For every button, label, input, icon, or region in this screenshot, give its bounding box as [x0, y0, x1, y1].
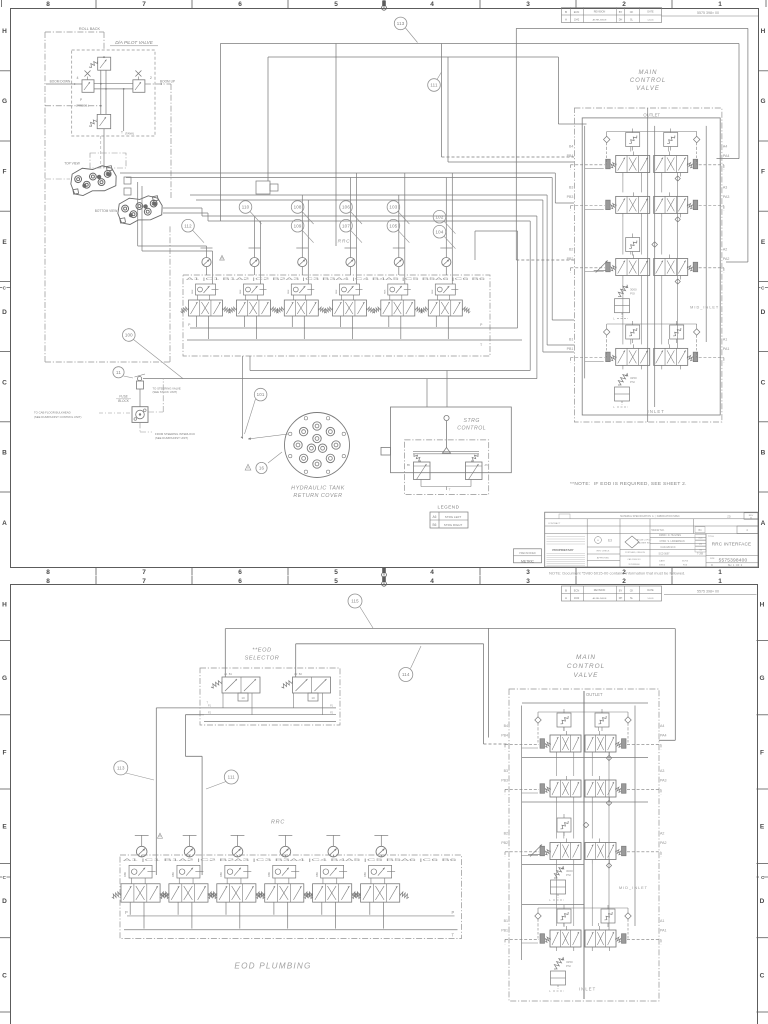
svg-text:B: B	[761, 450, 766, 457]
svg-text:5/8/00: 5/8/00	[659, 565, 666, 567]
svg-text:ATLAS COPCO: ATLAS COPCO	[637, 539, 652, 542]
svg-text:A5: A5	[485, 463, 489, 467]
svg-text:ECN: ECN	[574, 10, 580, 14]
svg-text:110: 110	[242, 205, 250, 210]
svg-text:E: E	[2, 824, 7, 831]
svg-text:+: +	[597, 538, 599, 542]
svg-text:REV CHECK: REV CHECK	[597, 551, 610, 553]
svg-text:10: 10	[311, 696, 315, 700]
svg-text:5: 5	[334, 578, 338, 585]
svg-text:A3: A3	[723, 185, 727, 189]
svg-text:BLOCK: BLOCK	[118, 399, 130, 403]
svg-text:113: 113	[117, 766, 125, 771]
svg-text:PB3: PB3	[501, 779, 508, 783]
svg-text:A1 |C1 B1A2 |C2 B2A3 |C3 B3A4: A1 |C1 B1A2 |C2 B2A3 |C3 B3A4 |C4 B4A5 |…	[123, 857, 457, 862]
svg-text:DH: DH	[619, 597, 623, 600]
svg-text:B: B	[565, 589, 567, 593]
svg-text:6: 6	[238, 1, 242, 8]
svg-text:METRIC: METRIC	[521, 559, 535, 563]
svg-text:RRC INTERFACE: RRC INTERFACE	[712, 542, 752, 547]
svg-text:SL: SL	[630, 19, 634, 22]
svg-text:AS RE-ISSUE: AS RE-ISSUE	[593, 18, 607, 21]
svg-text:CONTROL: CONTROL	[457, 426, 486, 432]
svg-text:B1: B1	[569, 337, 573, 341]
svg-text:F: F	[760, 749, 764, 756]
svg-text:M I D _ I N L E T: M I D _ I N L E T	[619, 886, 648, 890]
svg-text:102: 102	[436, 214, 444, 219]
svg-text:STRG RIGHT: STRG RIGHT	[444, 523, 463, 527]
svg-text:C: C	[761, 379, 766, 386]
svg-text:VALVE: VALVE	[574, 672, 599, 679]
svg-text:RBK: RBK	[316, 872, 319, 877]
svg-text:B3: B3	[504, 769, 508, 773]
svg-text:CAD-GB-SCC: CAD-GB-SCC	[660, 546, 675, 549]
svg-text:P: P	[452, 910, 455, 915]
svg-text:E: E	[761, 239, 766, 246]
svg-text:C: C	[2, 379, 7, 386]
svg-text:106: 106	[342, 205, 350, 210]
svg-text:CK: CK	[630, 10, 634, 14]
svg-text:4: 4	[430, 569, 434, 576]
svg-text:PA3: PA3	[723, 195, 730, 199]
svg-text:SCD 5697: SCD 5697	[658, 553, 670, 556]
svg-text:A2: A2	[660, 832, 664, 836]
svg-text:B4: B4	[699, 529, 703, 532]
svg-text:SIZE: SIZE	[710, 558, 715, 560]
svg-text:B3: B3	[569, 185, 573, 189]
svg-text:D: D	[760, 898, 765, 905]
svg-text:A1: A1	[660, 919, 664, 923]
svg-text:RRC: RRC	[271, 820, 285, 826]
svg-text:PA1: PA1	[723, 347, 730, 351]
svg-text:B: B	[565, 10, 567, 14]
svg-text:PA2: PA2	[660, 841, 667, 845]
svg-text:2: 2	[622, 1, 626, 8]
svg-text:1-8-01: 1-8-01	[647, 19, 654, 21]
svg-text:I N L E T: I N L E T	[648, 409, 665, 414]
svg-text:P2: P2	[208, 711, 212, 714]
svg-text:PB4: PB4	[567, 154, 574, 158]
svg-text:PA4: PA4	[660, 734, 667, 738]
svg-text:B6: B6	[433, 523, 437, 527]
svg-text:CONTROL: CONTROL	[630, 78, 666, 84]
svg-text:SELECTOR: SELECTOR	[245, 656, 280, 662]
svg-text:107: 107	[342, 223, 350, 228]
svg-text:MATERIAL SPECIFICATION A |: MATERIAL SPECIFICATION A | FABRICATION S…	[620, 515, 680, 518]
svg-text:A: A	[761, 520, 766, 527]
svg-text:MAIN: MAIN	[576, 654, 596, 661]
svg-text:(TANK): (TANK)	[125, 132, 134, 136]
svg-text:P: P	[480, 323, 483, 327]
svg-text:FUSE: FUSE	[119, 395, 128, 399]
svg-text:H: H	[2, 601, 7, 608]
svg-text:DH: DH	[619, 19, 623, 22]
svg-text:B2: B2	[504, 832, 508, 836]
svg-text:A4: A4	[660, 724, 664, 728]
svg-text:OUTLET: OUTLET	[643, 112, 660, 117]
svg-text:PB2: PB2	[567, 257, 574, 261]
svg-text:7M: 7M	[699, 550, 702, 552]
svg-text:PSI: PSI	[630, 380, 635, 384]
svg-text:TO CAB FLOOR BULKHEAD: TO CAB FLOOR BULKHEAD	[34, 411, 71, 415]
svg-text:4: 4	[430, 1, 434, 8]
svg-text:P: P	[188, 323, 191, 327]
svg-text:7: 7	[142, 569, 146, 576]
svg-text:PSI: PSI	[566, 873, 571, 877]
svg-text:T: T	[121, 131, 123, 135]
svg-text:T: T	[452, 933, 455, 938]
svg-text:A1: A1	[723, 337, 727, 341]
svg-text:H: H	[761, 28, 766, 35]
svg-text:DATE: DATE	[659, 560, 665, 563]
svg-text:1: 1	[718, 1, 722, 8]
svg-text:BOTTOM VIEW: BOTTOM VIEW	[95, 209, 118, 213]
svg-text:NOTE: Document *5V80 6015-00 c: NOTE: Document *5V80 6015-00 contains in…	[549, 571, 685, 576]
svg-text:C: C	[761, 875, 765, 880]
svg-text:MAIN: MAIN	[639, 70, 658, 76]
svg-text:113: 113	[397, 21, 405, 26]
svg-text:112: 112	[184, 223, 192, 228]
svg-text:5575 398× 00: 5575 398× 00	[697, 589, 719, 593]
svg-text:RBK: RBK	[268, 872, 271, 877]
svg-text:D: D	[2, 898, 7, 905]
svg-text:CONTRACT: CONTRACT	[548, 522, 561, 525]
svg-text:BOOM UP: BOOM UP	[160, 80, 175, 84]
svg-text:G: G	[2, 675, 7, 682]
svg-text:5D4/W NO.: 5D4/W NO.	[651, 528, 665, 532]
svg-text:8: 8	[46, 569, 50, 576]
svg-text:RBK: RBK	[192, 289, 194, 294]
svg-text:OUTLET: OUTLET	[586, 692, 603, 697]
svg-text:**NOTE: IF EOD IS REQUIRED, S: **NOTE: IF EOD IS REQUIRED, SEE SHEET 2.	[570, 481, 687, 487]
svg-text:ECN: ECN	[574, 589, 580, 593]
svg-text:F: F	[3, 749, 7, 756]
svg-text:DATE: DATE	[647, 589, 654, 592]
svg-text:115: 115	[351, 599, 359, 604]
svg-text:A1 |C1 B1A2 |C2 B2A3 |C3 B3A4: A1 |C1 B1A2 |C2 B2A3 |C3 B3A4 |C4 B4A5 |…	[186, 277, 485, 281]
svg-text:B5: B5	[407, 463, 411, 467]
svg-text:AS RE-ISSUE: AS RE-ISSUE	[593, 597, 607, 600]
svg-text:PB2: PB2	[501, 841, 508, 845]
svg-text:P1: P1	[208, 705, 212, 708]
svg-text:3: 3	[526, 578, 530, 585]
svg-text:5575 398× 00: 5575 398× 00	[697, 11, 719, 15]
svg-text:16: 16	[259, 466, 265, 471]
svg-text:T: T	[449, 488, 451, 492]
svg-text:RBK: RBK	[288, 289, 290, 294]
svg-text:P2: P2	[330, 711, 334, 714]
svg-text:CONTROL: CONTROL	[567, 663, 605, 670]
svg-text:**EOD: **EOD	[252, 648, 271, 654]
svg-text:RBK: RBK	[124, 872, 127, 877]
svg-text:APPROVED: APPROVED	[597, 557, 610, 560]
svg-text:D/A PILOT VALVE: D/A PILOT VALVE	[115, 40, 154, 45]
svg-text:1-8-01: 1-8-01	[647, 598, 654, 600]
svg-text:PB4: PB4	[501, 734, 508, 738]
svg-text:A: A	[565, 596, 567, 600]
svg-text:1: 1	[718, 578, 722, 585]
svg-text:M I D _ I N L E T: M I D _ I N L E T	[690, 306, 719, 310]
svg-text:P1: P1	[330, 705, 334, 708]
svg-text:111: 111	[228, 775, 236, 780]
svg-text:100: 100	[125, 333, 133, 338]
svg-text:SL: SL	[630, 597, 634, 600]
svg-text:E: E	[760, 824, 765, 831]
svg-text:4: 4	[746, 528, 748, 532]
svg-text:B4: B4	[569, 145, 573, 149]
svg-text:REVISION: REVISION	[594, 589, 606, 592]
svg-text:D: D	[761, 309, 766, 316]
svg-text:P: P	[80, 98, 82, 102]
svg-text:G: G	[760, 98, 765, 105]
svg-text:BY: BY	[619, 589, 623, 593]
svg-text:5: 5	[334, 569, 338, 576]
svg-text:PORTLAND, OREGON: PORTLAND, OREGON	[625, 551, 645, 554]
svg-text:1: 1	[718, 569, 722, 576]
svg-text:D: D	[2, 309, 7, 316]
svg-text:3: 3	[526, 569, 530, 576]
svg-text:RBK: RBK	[336, 289, 338, 294]
svg-text:CAD DWG NO: CAD DWG NO	[627, 558, 641, 561]
svg-text:1042: 1042	[574, 19, 580, 22]
svg-text:H: H	[760, 601, 765, 608]
svg-text:B2: B2	[569, 248, 573, 252]
svg-text:LEGEND: LEGEND	[438, 505, 460, 510]
svg-text:T: T	[480, 343, 483, 347]
svg-text:PA1: PA1	[660, 929, 667, 933]
svg-text:10: 10	[241, 696, 245, 700]
svg-text:RBK: RBK	[384, 289, 386, 294]
svg-text:105: 105	[389, 223, 397, 228]
svg-text:EJ3: EJ3	[699, 538, 704, 540]
svg-text:F: F	[3, 169, 7, 176]
svg-text:109: 109	[294, 223, 302, 228]
svg-text:4: 4	[430, 578, 434, 585]
svg-text:TITLE: TITLE	[708, 536, 714, 538]
svg-text:2: 2	[150, 76, 152, 80]
svg-text:L: L	[549, 989, 551, 993]
svg-text:111: 111	[430, 83, 438, 88]
svg-text:B4: B4	[504, 724, 508, 728]
svg-text:C: C	[3, 875, 7, 880]
svg-text:114: 114	[402, 672, 410, 677]
svg-text:RBK: RBK	[364, 872, 367, 877]
svg-text:PB1: PB1	[567, 347, 574, 351]
svg-text:STRG LEFT: STRG LEFT	[445, 515, 462, 519]
svg-text:I N L E T: I N L E T	[579, 987, 596, 992]
svg-text:RRC: RRC	[338, 239, 351, 245]
svg-text:T-J08: T-J08	[697, 553, 704, 556]
svg-text:SH 1 OF 2: SH 1 OF 2	[728, 563, 743, 567]
svg-text:EOD PLUMBING: EOD PLUMBING	[234, 962, 311, 971]
svg-text:REVISION: REVISION	[594, 11, 606, 14]
svg-text:7: 7	[142, 578, 146, 585]
svg-text:G: G	[2, 98, 7, 105]
svg-text:L: L	[613, 405, 615, 409]
svg-text:PB1: PB1	[501, 929, 508, 933]
svg-text:RBK: RBK	[240, 289, 242, 294]
svg-text:C: C	[3, 286, 7, 291]
svg-text:DRWN D. HUGHES: DRWN D. HUGHES	[659, 534, 681, 537]
svg-text:PA2: PA2	[723, 257, 730, 261]
svg-text:104: 104	[436, 229, 444, 234]
svg-text:A3: A3	[660, 769, 664, 773]
svg-text:B: B	[2, 450, 7, 457]
svg-text:PA4: PA4	[723, 154, 730, 158]
svg-text:PROPRIETARY: PROPRIETARY	[552, 548, 573, 552]
svg-text:(SEE STACK UNIT): (SEE STACK UNIT)	[153, 390, 178, 394]
svg-text:5: 5	[334, 1, 338, 8]
svg-text:A: A	[2, 520, 7, 527]
svg-text:D: D	[711, 564, 713, 567]
svg-text:L: L	[549, 898, 551, 902]
svg-text:PSI: PSI	[566, 964, 571, 968]
svg-text:6: 6	[238, 569, 242, 576]
svg-text:E3: E3	[608, 539, 612, 543]
svg-text:STRG: STRG	[463, 418, 479, 424]
svg-text:RETURN COVER: RETURN COVER	[293, 493, 342, 499]
svg-text:PA3: PA3	[660, 779, 667, 783]
svg-text:ROLL BACK: ROLL BACK	[79, 27, 101, 31]
svg-text:5575398400: 5575398400	[628, 564, 640, 566]
svg-text:A2: A2	[723, 248, 727, 252]
svg-text:L: L	[613, 317, 615, 321]
svg-text:2: 2	[622, 578, 626, 585]
svg-text:RBK: RBK	[172, 872, 175, 877]
svg-text:ZD: ZD	[727, 515, 731, 519]
svg-text:P: P	[125, 910, 128, 915]
svg-text:RBK: RBK	[220, 872, 223, 877]
svg-text:BY: BY	[619, 10, 623, 14]
svg-text:PSI: PSI	[630, 292, 635, 296]
svg-text:A: A	[565, 18, 567, 22]
svg-text:7: 7	[142, 1, 146, 8]
svg-text:PRECISIONED: PRECISIONED	[519, 552, 536, 555]
svg-text:3: 3	[526, 1, 530, 8]
svg-text:DN: DN	[699, 544, 703, 546]
svg-text:103: 103	[389, 205, 397, 210]
svg-text:A4: A4	[723, 145, 727, 149]
svg-text:1042: 1042	[574, 597, 580, 600]
svg-text:101: 101	[257, 392, 265, 397]
svg-text:C: C	[761, 286, 765, 291]
svg-text:P.06: P.06	[683, 565, 688, 567]
svg-text:C: C	[760, 972, 765, 979]
svg-text:4: 4	[77, 76, 79, 80]
svg-text:6: 6	[238, 578, 242, 585]
svg-text:RBK: RBK	[432, 289, 434, 294]
svg-text:8: 8	[46, 578, 50, 585]
svg-text:VALVE: VALVE	[636, 86, 660, 92]
svg-text:C: C	[2, 972, 7, 979]
svg-text:CK: CK	[630, 589, 634, 593]
svg-text:55753: 55753	[682, 561, 689, 563]
svg-text:PB3: PB3	[567, 195, 574, 199]
svg-text:BOOM DOWN: BOOM DOWN	[50, 80, 71, 84]
svg-text:E: E	[2, 239, 7, 246]
svg-text:CHKD S. LINDERMAN: CHKD S. LINDERMAN	[659, 540, 684, 543]
svg-text:WAGNER INC.: WAGNER INC.	[637, 542, 651, 545]
svg-text:HYDRAULIC TANK: HYDRAULIC TANK	[291, 486, 345, 492]
svg-text:8: 8	[46, 1, 50, 8]
svg-text:B1: B1	[504, 919, 508, 923]
svg-text:H: H	[2, 28, 7, 35]
svg-text:G: G	[759, 675, 764, 682]
svg-text:(SEE DUMP/HOIST CONTROL UNIT): (SEE DUMP/HOIST CONTROL UNIT)	[34, 415, 81, 419]
svg-text:A6: A6	[433, 515, 437, 519]
svg-text:DATE: DATE	[647, 11, 654, 14]
svg-text:11: 11	[116, 370, 121, 375]
svg-text:(SEE DUMP/HOIST UNIT): (SEE DUMP/HOIST UNIT)	[155, 436, 188, 440]
svg-text:TOP VIEW: TOP VIEW	[64, 162, 79, 166]
svg-text:F: F	[761, 169, 765, 176]
svg-text:108: 108	[294, 205, 302, 210]
